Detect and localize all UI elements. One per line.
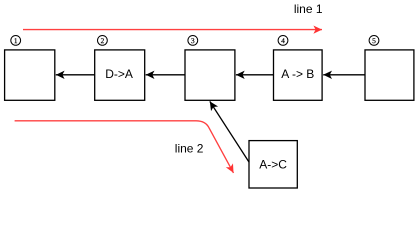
node 1 box bbox=[5, 50, 55, 100]
svg-text:line 1: line 1 bbox=[294, 2, 323, 16]
node 2 box D->A bbox=[95, 50, 145, 100]
red flow line 1 bbox=[23, 29, 322, 31]
arrow node5 to node4 bbox=[323, 74, 365, 76]
circled number 1 bbox=[11, 36, 21, 46]
circled number 3 bbox=[188, 36, 198, 46]
A->C box bbox=[249, 141, 297, 188]
circled number 2 bbox=[98, 36, 108, 46]
arrow node4 to node3 bbox=[236, 74, 274, 76]
svg-text:A -> B: A -> B bbox=[281, 67, 314, 81]
circled number 5 bbox=[369, 36, 379, 46]
arrow node3 to node2 bbox=[146, 74, 185, 76]
svg-text:A->C: A->C bbox=[259, 158, 287, 172]
svg-text:D->A: D->A bbox=[105, 67, 133, 81]
red flow line 2 bbox=[15, 121, 234, 173]
arrow A->C box to node3 bbox=[210, 101, 249, 162]
node 3 box bbox=[185, 50, 235, 100]
node 5 box bbox=[365, 50, 414, 100]
svg-text:line 2: line 2 bbox=[175, 141, 204, 155]
circled number 4 bbox=[278, 36, 288, 46]
arrow node2 to node1 bbox=[56, 74, 95, 76]
node 4 box A -> B bbox=[274, 50, 323, 100]
